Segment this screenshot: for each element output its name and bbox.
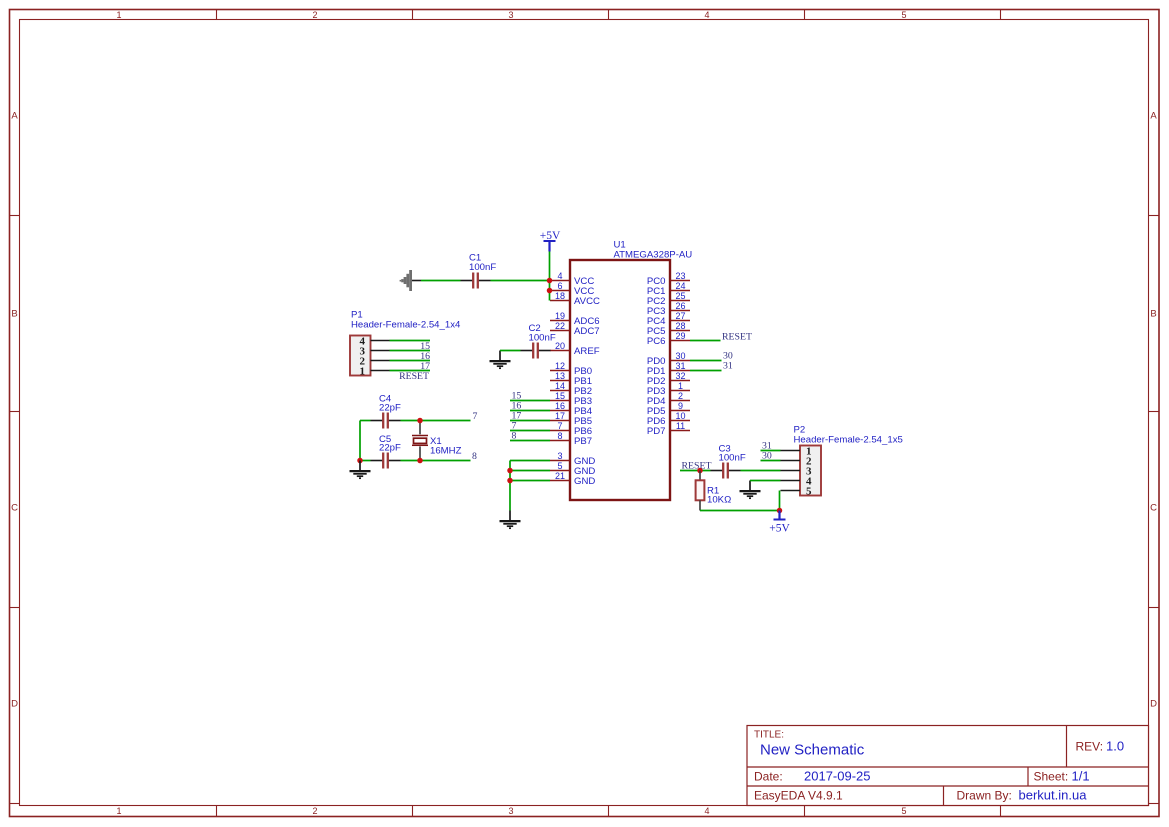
svg-text:3: 3 (508, 10, 513, 20)
wire gnd to C1 (421, 280, 461, 282)
svg-text:2: 2 (312, 10, 317, 20)
svg-text:REV:: REV: (1076, 740, 1104, 754)
svg-text:+5V: +5V (540, 230, 561, 242)
capacitor C4 (371, 413, 401, 429)
svg-text:Drawn By:: Drawn By: (957, 789, 1012, 803)
junction X1 top (417, 418, 423, 424)
svg-text:100nF: 100nF (529, 333, 556, 344)
svg-text:2017-09-25: 2017-09-25 (804, 769, 871, 784)
svg-text:berkut.in.ua: berkut.in.ua (1019, 788, 1088, 803)
P2 pin lead (781, 490, 801, 492)
svg-text:RESET: RESET (722, 331, 752, 342)
svg-text:10KΩ: 10KΩ (707, 495, 731, 506)
U1 pin 8 PB7 (550, 431, 592, 447)
svg-text:1: 1 (678, 381, 683, 391)
U1 pin 25 PC2 (647, 291, 690, 307)
ground below C5 (350, 461, 371, 479)
wire C4 to pin7 net (401, 420, 471, 422)
U1 pin 16 PB4 (550, 401, 593, 417)
svg-text:2: 2 (312, 806, 317, 816)
svg-text:31: 31 (723, 361, 733, 372)
junction VCC pin4 (547, 278, 553, 284)
wire net 7 at PB (510, 430, 550, 432)
U1 pin 24 PC1 (647, 281, 690, 297)
svg-text:7: 7 (473, 411, 478, 422)
wire net 8 at PB (510, 440, 550, 442)
junction RESET node (697, 468, 703, 474)
svg-text:AREF: AREF (574, 346, 600, 357)
svg-text:RESET: RESET (682, 460, 712, 471)
wire GND pin3 (510, 460, 550, 462)
IC U1 ATMEGA328P-AU (550, 240, 692, 501)
svg-text:13: 13 (555, 371, 565, 381)
U1 pin 2 PD4 (647, 391, 690, 407)
svg-text:32: 32 (675, 371, 685, 381)
svg-text:3: 3 (557, 451, 562, 461)
svg-text:5: 5 (901, 10, 906, 20)
svg-text:B: B (11, 309, 17, 320)
U1 pin 18 AVCC (550, 291, 600, 307)
capacitor C3 (711, 463, 741, 479)
U1 pin 31 PD1 (647, 361, 690, 377)
capacitor C2 (521, 343, 551, 359)
ground below U1 (500, 511, 521, 529)
P2 pin lead (781, 480, 801, 482)
svg-text:1: 1 (116, 806, 121, 816)
junction GND pin21 (507, 478, 513, 484)
connector P1 Header-Female-2.54_1x4 (350, 310, 461, 378)
U1 pin 29 PC6 (647, 331, 690, 347)
P2 pin lead (781, 450, 801, 452)
P1 pin lead (371, 350, 390, 352)
junction X1 bottom (417, 458, 423, 464)
svg-text:22pF: 22pF (379, 443, 401, 454)
U1 pin 26 PC3 (647, 301, 690, 317)
title block (747, 726, 1149, 806)
svg-text:29: 29 (675, 331, 685, 341)
U1 pin 4 VCC (550, 271, 594, 287)
U1 pin 22 ADC7 (550, 321, 600, 337)
wire C5 to pin8 net (401, 460, 471, 462)
power flag +5V top (544, 241, 556, 252)
svg-text:100nF: 100nF (719, 452, 746, 463)
svg-text:5: 5 (901, 806, 906, 816)
U1 pin 7 PB6 (550, 421, 592, 437)
svg-text:7: 7 (557, 421, 562, 431)
U1 pin 13 PB1 (550, 371, 592, 387)
svg-text:17: 17 (555, 411, 565, 421)
svg-text:3: 3 (508, 806, 513, 816)
U1 pin 6 VCC (550, 281, 594, 297)
wire net 31 to P2.1 (761, 450, 781, 452)
U1 pin 32 PD2 (647, 371, 690, 387)
svg-text:5: 5 (806, 485, 812, 497)
svg-text:14: 14 (555, 381, 565, 391)
P2 pin lead (781, 460, 801, 462)
wire net 16 at PB (510, 410, 550, 412)
wire P1.4 net 15 (390, 340, 431, 342)
svg-text:B: B (1150, 309, 1156, 320)
svg-text:EasyEDA V4.9.1: EasyEDA V4.9.1 (754, 789, 843, 803)
P2 pin lead (781, 470, 801, 472)
svg-text:21: 21 (555, 471, 565, 481)
U1 pin 12 PB0 (550, 361, 592, 377)
svg-text:D: D (11, 699, 18, 710)
junction C5 gnd (357, 458, 363, 464)
wire net 17 at PB (510, 420, 550, 422)
wire RESET at PC6 (690, 340, 721, 342)
wire XTAL2 left segment (360, 460, 371, 462)
wire GND pin21 (510, 480, 550, 482)
svg-text:26: 26 (675, 301, 685, 311)
svg-text:1: 1 (116, 10, 121, 20)
U1 pin 5 GND (550, 461, 595, 477)
svg-text:6: 6 (557, 281, 562, 291)
U1 pin 15 PB3 (550, 391, 592, 407)
svg-text:22pF: 22pF (379, 402, 401, 413)
svg-text:1: 1 (360, 365, 366, 377)
svg-text:27: 27 (675, 311, 685, 321)
U1 pin 9 PD5 (647, 401, 690, 417)
svg-text:C: C (1150, 503, 1157, 514)
wire C1 to VCC node (491, 280, 550, 282)
U1 pin 11 PD7 (647, 421, 690, 437)
svg-text:Sheet:: Sheet: (1034, 770, 1069, 784)
svg-text:A: A (11, 111, 18, 122)
svg-text:Header-Female-2.54_1x5: Header-Female-2.54_1x5 (794, 435, 903, 446)
svg-text:8: 8 (557, 431, 562, 441)
U1 pin 30 PD0 (647, 351, 690, 367)
svg-text:20: 20 (555, 341, 565, 351)
wire C4-C5 vertical (359, 421, 361, 461)
svg-text:19: 19 (555, 311, 565, 321)
svg-text:+5V: +5V (769, 523, 790, 535)
svg-text:PB7: PB7 (574, 436, 592, 447)
wire +5V to P2.5 (779, 491, 781, 511)
svg-text:30: 30 (675, 351, 685, 361)
P1 body (350, 336, 371, 376)
svg-text:4: 4 (557, 271, 562, 281)
svg-text:GND: GND (574, 476, 595, 487)
svg-text:AVCC: AVCC (574, 296, 600, 307)
svg-text:PD7: PD7 (647, 426, 666, 437)
svg-text:2: 2 (678, 391, 683, 401)
svg-text:5: 5 (557, 461, 562, 471)
svg-text:8: 8 (512, 431, 517, 442)
power flag +5V bottom (774, 511, 786, 520)
junction GND pin5 (507, 468, 513, 474)
capacitor C5 (371, 453, 401, 469)
ground (rotated, grey) left of C1 (400, 270, 421, 291)
U1 pin 23 PC0 (647, 271, 690, 287)
connector P2 Header-Female-2.54_1x5 (781, 425, 903, 498)
ground at P2.4 (740, 481, 761, 499)
svg-text:31: 31 (675, 361, 685, 371)
U1 pin 1 PD3 (647, 381, 690, 397)
wire net 30 to P2.2 (761, 460, 781, 462)
svg-text:TITLE:: TITLE: (754, 730, 784, 741)
U1 pin 28 PC5 (647, 321, 690, 337)
wire XTAL1 left segment (360, 420, 371, 422)
svg-text:16MHZ: 16MHZ (430, 445, 462, 456)
U1 pin 21 GND (550, 471, 595, 487)
wire P1.3 net 16 (390, 350, 431, 352)
U1 pin 14 PB2 (550, 381, 592, 397)
U1 pin 27 PC4 (647, 311, 690, 327)
U1 pin 3 GND (550, 451, 595, 467)
svg-text:9: 9 (678, 401, 683, 411)
svg-text:1/1: 1/1 (1072, 769, 1090, 784)
wire net 31 at PD1 (690, 370, 722, 372)
svg-text:30: 30 (762, 450, 772, 461)
P1 pin lead (371, 370, 390, 372)
svg-text:PC6: PC6 (647, 336, 666, 347)
svg-text:100nF: 100nF (469, 262, 496, 273)
capacitor C1 (461, 273, 491, 289)
svg-text:D: D (1150, 699, 1157, 710)
svg-text:12: 12 (555, 361, 565, 371)
P1 pin lead (371, 360, 390, 362)
svg-text:28: 28 (675, 321, 685, 331)
wire net 30 at PD0 (690, 360, 722, 362)
svg-text:22: 22 (555, 321, 565, 331)
svg-text:15: 15 (555, 391, 565, 401)
U1 pin 20 AREF (550, 341, 600, 357)
U1 body (570, 260, 670, 500)
ground below C2 (490, 351, 511, 369)
svg-text:8: 8 (472, 451, 477, 462)
svg-text:Header-Female-2.54_1x4: Header-Female-2.54_1x4 (351, 320, 461, 331)
svg-text:4: 4 (704, 10, 709, 20)
U1 pin 19 ADC6 (550, 311, 600, 327)
svg-text:1.0: 1.0 (1106, 739, 1124, 754)
wire GND pin5 (510, 470, 550, 472)
wire P1.2 net 17 (390, 360, 431, 362)
svg-text:Date:: Date: (754, 770, 783, 784)
crystal X1 16MHZ (412, 421, 428, 461)
U1 pin 10 PD6 (647, 411, 690, 427)
wire gnd to C2 (500, 350, 521, 352)
svg-text:16: 16 (555, 401, 565, 411)
svg-text:10: 10 (675, 411, 685, 421)
wire P1.1 net RESET (390, 370, 431, 372)
svg-text:18: 18 (555, 291, 565, 301)
svg-text:New Schematic: New Schematic (760, 742, 865, 759)
svg-text:25: 25 (675, 291, 685, 301)
svg-text:24: 24 (675, 281, 685, 291)
junction +5V node (777, 508, 783, 514)
wire GND vertical (509, 461, 511, 511)
svg-text:RESET: RESET (399, 371, 429, 382)
resistor R1 (696, 471, 705, 511)
wire C3 to P2.3 (741, 470, 781, 472)
wire R1 to +5V node (700, 510, 780, 512)
svg-text:11: 11 (676, 421, 685, 431)
wire +5V vertical to AVCC (549, 252, 551, 301)
svg-text:A: A (1150, 111, 1157, 122)
wire RESET left segment (680, 470, 711, 472)
svg-text:4: 4 (704, 806, 709, 816)
P2 body (800, 446, 821, 496)
P1 pin lead (371, 340, 390, 342)
svg-text:ADC7: ADC7 (574, 326, 600, 337)
svg-text:23: 23 (675, 271, 685, 281)
wire net 15 at PB (510, 400, 550, 402)
U1 pin 17 PB5 (550, 411, 592, 427)
junction VCC pin6 (547, 288, 553, 294)
svg-text:C: C (11, 503, 18, 514)
wire gnd to P2.4 (750, 480, 781, 482)
